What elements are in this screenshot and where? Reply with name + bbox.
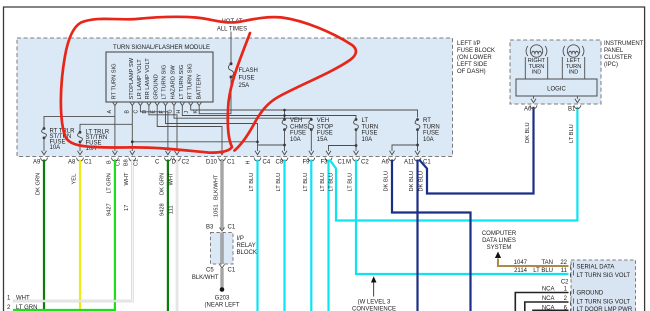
svg-text:FLASH: FLASH (239, 68, 258, 74)
I/P relay block connector B3/C1 (220, 228, 225, 232)
svg-text:C2: C2 (182, 160, 190, 166)
svg-text:1051: 1051 (214, 204, 220, 217)
svg-text:IND: IND (569, 70, 579, 76)
wire pin B branch to drop C4 vertical (132, 141, 257, 143)
svg-text:C: C (155, 160, 160, 166)
module pin letters A-K (107, 109, 199, 113)
turn signal/flasher module box (106, 52, 213, 102)
svg-text:BLK/WHT: BLK/WHT (214, 174, 220, 200)
svg-text:A6: A6 (524, 107, 532, 113)
svg-text:A8: A8 (68, 160, 76, 166)
svg-text:FUSE: FUSE (239, 76, 255, 82)
junction riser/bus dots (283, 109, 286, 112)
svg-text:LT TURN SIG: LT TURN SIG (162, 65, 168, 100)
svg-text:D: D (172, 160, 177, 166)
svg-text:LT GRN: LT GRN (16, 305, 37, 311)
svg-text:(IPC): (IPC) (604, 62, 618, 68)
svg-text:CONVENIENCE: CONVENIENCE (352, 307, 396, 311)
wire BLK NCA lt door lmp pwr row (533, 309, 569, 311)
wire IPC pins into logic box (534, 96, 578, 99)
serial data connector glyphs (570, 263, 574, 311)
svg-text:FUSE: FUSE (423, 131, 439, 137)
svg-text:B3: B3 (206, 225, 214, 231)
rotated drop connector labels (106, 159, 251, 166)
wire CHMSL branch to drop C4 vertical (258, 144, 285, 146)
wire pin J bus to RT TURN fuse riser (191, 106, 418, 118)
svg-text:F9: F9 (303, 160, 311, 166)
wire DK GRN from A9 to bottom (43, 160, 45, 311)
svg-text:C1: C1 (227, 160, 235, 166)
wire WHT from B8 to left edge row 1 (13, 160, 132, 302)
svg-text:(W LEVEL 3: (W LEVEL 3 (358, 300, 391, 306)
wire BLK/WHT from D10 to I/P relay block (221, 160, 224, 231)
svg-text:LOGIC: LOGIC (547, 87, 566, 93)
svg-text:TURN: TURN (362, 124, 379, 130)
wire pin B down to drop B8 (131, 106, 133, 151)
svg-text:C8: C8 (276, 160, 284, 166)
svg-text:C1: C1 (116, 159, 122, 166)
wire VEH CHMSL fuse to drop C8 with branch junction (284, 130, 286, 151)
wire DK BLU from A11 straight to bottom (416, 160, 418, 311)
svg-text:DK BLU: DK BLU (409, 171, 415, 192)
svg-text:GROUND: GROUND (577, 291, 604, 297)
IPC label (604, 41, 644, 68)
wire pin C bus to drop C/D (140, 106, 168, 151)
svg-text:C2: C2 (561, 280, 569, 286)
wire LT BLU from F3 to IPC pin B1 (330, 107, 578, 221)
svg-text:1047: 1047 (514, 260, 528, 266)
svg-text:ALL TIMES: ALL TIMES (217, 27, 247, 33)
svg-text:CHMSL: CHMSL (290, 124, 312, 130)
wire DK BLU from A11/C1 to IPC pin A6 (419, 107, 534, 194)
wire flash fuse to pin K (199, 77, 231, 114)
svg-text:H: H (246, 161, 252, 165)
svg-text:NCA: NCA (542, 287, 555, 293)
wire WHT 111 from C2 to bottom (176, 160, 178, 311)
svg-text:LT BLU: LT BLU (276, 173, 282, 192)
svg-text:(NEAR LEFT: (NEAR LEFT (204, 303, 239, 309)
wire pin A branch to RT TRLR fuse (44, 116, 115, 128)
svg-text:YEL: YEL (72, 174, 78, 185)
module pin connector glyphs (113, 103, 202, 106)
svg-text:C: C (134, 110, 140, 114)
wire LT TURN branch to drop F3 (329, 146, 357, 152)
svg-text:LT GRN: LT GRN (106, 173, 112, 193)
svg-text:INSTRUMENT: INSTRUMENT (604, 41, 644, 47)
svg-text:LT BLU: LT BLU (329, 173, 335, 192)
fuse VEH STOP 15A (309, 118, 333, 143)
w level 3 convenience note with arrow (371, 276, 377, 282)
svg-text:TAN: TAN (541, 260, 553, 266)
svg-text:LEFT SIDE: LEFT SIDE (457, 62, 487, 68)
svg-text:SYSTEM: SYSTEM (487, 245, 512, 251)
left I/P fuse block dashed box (17, 38, 453, 157)
svg-text:10A: 10A (362, 137, 373, 143)
I/P relay block connector C5/C1 (220, 265, 225, 269)
svg-text:TURN SIGNAL/FLASHER MODULE: TURN SIGNAL/FLASHER MODULE (113, 45, 210, 51)
arrow to computer data lines (495, 252, 501, 259)
left turn indicator lamp (562, 45, 584, 79)
svg-text:I/P: I/P (237, 236, 244, 242)
drop connector labels (33, 160, 431, 166)
svg-text:LT TURN SIG VOLT: LT TURN SIG VOLT (577, 300, 631, 306)
svg-text:WHT: WHT (169, 172, 175, 185)
wire pin D bus to drop C2 (149, 106, 177, 151)
wire YEL from A8 to bottom (79, 160, 81, 311)
svg-text:D10: D10 (206, 160, 218, 166)
wire LT GRN from B to left edge row 2 (13, 160, 115, 311)
svg-text:C1: C1 (338, 160, 346, 166)
serial data connector pin texts (577, 265, 633, 311)
I/P relay block dashed box (211, 233, 234, 265)
wire BLK NCA lt turn sig volt row (525, 302, 569, 311)
svg-text:LT BLU: LT BLU (533, 268, 553, 274)
svg-text:OF DASH): OF DASH) (457, 69, 486, 75)
svg-text:LT BLU: LT BLU (249, 173, 255, 192)
svg-text:GROUND: GROUND (154, 74, 160, 99)
svg-text:2114: 2114 (514, 268, 528, 274)
wire LT BLU from M/C2 to serial data connector (356, 160, 569, 275)
svg-text:WHT: WHT (16, 296, 30, 302)
svg-text:LT DOOR LMP PWR: LT DOOR LMP PWR (577, 307, 633, 311)
fuse LT TURN 10A (354, 118, 379, 143)
svg-text:STOPLAMP SW: STOPLAMP SW (129, 57, 135, 99)
wire DK BLU from A6 down and right to bottom (392, 160, 471, 311)
wire pin F bus to drop C4 (166, 106, 258, 151)
svg-text:DK GRN: DK GRN (159, 173, 165, 195)
svg-text:A6: A6 (382, 160, 390, 166)
rotated wire color labels (36, 122, 575, 200)
fuse LT TRLR ST/TRN 10A (78, 130, 110, 153)
svg-text:11: 11 (561, 268, 568, 274)
svg-text:VEH: VEH (290, 118, 302, 124)
svg-text:LT TURN SIG VOLT: LT TURN SIG VOLT (577, 273, 631, 279)
svg-text:17: 17 (124, 205, 130, 211)
serial data connector shaded box (571, 260, 636, 311)
svg-text:B: B (124, 110, 130, 114)
svg-text:DATA LINES: DATA LINES (482, 238, 516, 244)
svg-text:FUSE: FUSE (362, 131, 378, 137)
svg-text:TURN: TURN (423, 124, 440, 130)
wire pin H bus to LT TURN fuse riser (182, 106, 356, 120)
svg-text:LT: LT (362, 118, 369, 124)
junction dot pin B branch (131, 140, 134, 143)
fuse RT TURN 10A (415, 118, 440, 143)
wire LT BLU from F9 to bottom (310, 160, 312, 311)
svg-text:RELAY: RELAY (237, 243, 256, 249)
wire DK GRN 9428 from C/D to bottom (167, 160, 169, 311)
ground G203 (220, 287, 225, 292)
rotated wire number labels (106, 203, 219, 217)
svg-text:DK BLU: DK BLU (384, 171, 390, 192)
wire pin E bus to drop D10 (157, 106, 222, 151)
svg-text:(ON LOWER: (ON LOWER (457, 55, 492, 61)
wire LT BLU from C4 to bottom (256, 160, 258, 311)
svg-text:WHT: WHT (124, 172, 130, 185)
svg-text:C2: C2 (361, 160, 369, 166)
svg-text:C1: C1 (133, 159, 139, 166)
IPC pin B1 connector (574, 99, 581, 109)
svg-text:C1: C1 (228, 225, 236, 231)
svg-text:M: M (346, 160, 351, 166)
fuse VEH CHMSL 10A (282, 118, 312, 143)
svg-text:25A: 25A (239, 83, 250, 89)
svg-text:C5: C5 (206, 268, 214, 274)
wire hot feed down to flash fuse (230, 32, 232, 63)
svg-text:SERIAL DATA: SERIAL DATA (577, 265, 615, 271)
svg-text:IND: IND (532, 70, 542, 76)
svg-text:PANEL: PANEL (604, 48, 624, 54)
svg-text:DK BLU: DK BLU (419, 171, 425, 192)
svg-text:LT BLU: LT BLU (320, 173, 326, 192)
drop connector arrows at fuse block bottom edge (41, 151, 421, 161)
fuse FLASH 25A (228, 62, 257, 89)
svg-text:RT: RT (423, 118, 431, 124)
wire BLK/WHT through relay block (221, 233, 224, 265)
svg-text:BATTERY: BATTERY (197, 74, 203, 100)
IPC pin A6 connector (530, 99, 537, 109)
svg-text:LR LAMP VOLT: LR LAMP VOLT (137, 59, 143, 100)
wire RT TRLR fuse to drop A9 (43, 138, 45, 151)
svg-text:C1: C1 (228, 268, 236, 274)
svg-text:A9: A9 (33, 160, 41, 166)
svg-text:DK GRN: DK GRN (36, 173, 42, 195)
svg-text:STOP: STOP (317, 124, 333, 130)
wire RT TURN fuse to drop A11 with branch junction (417, 130, 419, 151)
wire LT BLU from F3 straight to bottom (327, 160, 329, 311)
svg-text:LT BLU: LT BLU (303, 173, 309, 192)
wire pin A down to drop B (114, 106, 116, 151)
wire BLK NCA ground row (515, 293, 568, 311)
wire TAN 1047 serial data (498, 259, 569, 267)
wire LT TRLR fuse to drop A8 (79, 142, 81, 151)
wire pin B branch to LT TRLR fuse (80, 124, 132, 132)
left I/P fuse block label (457, 41, 495, 75)
svg-text:LEFT I/P: LEFT I/P (457, 41, 481, 47)
right turn indicator lamp (525, 45, 547, 79)
svg-text:C4: C4 (263, 160, 271, 166)
svg-text:10A: 10A (423, 137, 434, 143)
svg-text:HAZARD SW: HAZARD SW (171, 65, 177, 100)
serial data wire labels (514, 260, 570, 311)
svg-text:9428: 9428 (159, 203, 165, 216)
svg-text:LT TURN SIG: LT TURN SIG (179, 65, 185, 100)
wire LT BLU from C8 to bottom (283, 160, 285, 311)
svg-text:CLUSTER: CLUSTER (604, 55, 633, 61)
svg-text:FUSE: FUSE (317, 131, 333, 137)
red hand-drawn annotation loop (61, 17, 356, 153)
svg-text:RR LAMP VOLT: RR LAMP VOLT (145, 58, 151, 100)
svg-text:RT TURN SIG: RT TURN SIG (112, 63, 118, 99)
svg-text:A: A (107, 110, 113, 114)
svg-text:10A: 10A (50, 145, 61, 151)
svg-text:COMPUTER: COMPUTER (482, 231, 517, 237)
svg-text:H: H (176, 110, 182, 114)
svg-text:111: 111 (169, 205, 175, 214)
svg-text:G203: G203 (215, 296, 230, 302)
module internal pin name labels (112, 57, 203, 99)
wire pin G bus to VEH STOP fuse riser (174, 106, 311, 120)
svg-text:C1: C1 (84, 160, 92, 166)
svg-text:15A: 15A (317, 137, 328, 143)
wire VEH CHMSL fuse riser (284, 110, 286, 120)
svg-text:B1: B1 (568, 107, 576, 113)
svg-text:RT TURN SIG: RT TURN SIG (188, 63, 194, 99)
wire VEH STOP fuse to drop F9 (310, 130, 312, 151)
wire BLK/WHT from relay block to ground (221, 268, 224, 288)
svg-text:LT BLU: LT BLU (348, 173, 354, 192)
svg-text:BLOCK: BLOCK (237, 250, 257, 256)
svg-text:BLK/WHT: BLK/WHT (192, 275, 219, 281)
svg-text:22: 22 (560, 260, 567, 266)
svg-text:VEH: VEH (317, 118, 329, 124)
svg-text:LT BLU: LT BLU (569, 124, 575, 143)
wire RT TURN branch to drop A6 (392, 145, 418, 151)
wire LT TURN fuse to drop M/C2 with branch junction (355, 130, 357, 151)
fuse RT TRLR ST/TRN 10A (42, 127, 76, 151)
svg-text:9427: 9427 (106, 203, 112, 216)
svg-text:J: J (184, 111, 190, 114)
svg-text:10A: 10A (290, 137, 301, 143)
svg-text:FUSE BLOCK: FUSE BLOCK (457, 48, 495, 54)
svg-text:B8: B8 (124, 159, 130, 166)
svg-text:FUSE: FUSE (290, 131, 306, 137)
svg-text:B: B (106, 160, 112, 164)
instrument panel cluster dashed box (510, 40, 601, 104)
svg-text:DK BLU: DK BLU (525, 122, 531, 143)
svg-text:NCA: NCA (542, 296, 555, 302)
svg-text:F3: F3 (321, 160, 329, 166)
IPC logic box (516, 79, 597, 96)
svg-text:A11: A11 (404, 160, 415, 166)
